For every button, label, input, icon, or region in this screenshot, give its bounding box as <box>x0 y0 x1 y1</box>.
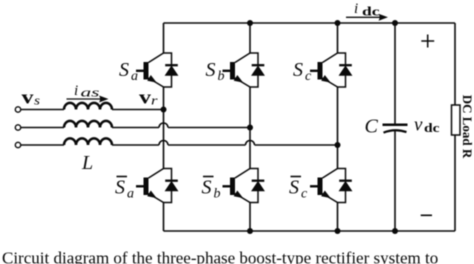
svg-text:S: S <box>202 177 212 199</box>
node dot phase b junction leg b <box>247 125 253 131</box>
current arrow i_as <box>67 96 109 103</box>
terminal phase b <box>15 125 20 130</box>
node dot top rail capacitor <box>392 20 398 26</box>
node dot top rail leg b <box>247 20 253 26</box>
svg-text:v: v <box>414 115 423 136</box>
svg-text:a: a <box>131 69 138 84</box>
svg-text:v: v <box>22 87 35 108</box>
svg-text:i: i <box>354 1 358 17</box>
label Sb-bar <box>202 177 221 202</box>
label i_dc <box>354 1 380 18</box>
node dot bottom rail leg b <box>247 228 253 234</box>
wire leg a vertical <box>163 23 165 231</box>
svg-text:c: c <box>305 69 312 84</box>
terminal phase a <box>15 107 20 112</box>
svg-text:S: S <box>119 59 129 81</box>
label Sb <box>206 59 225 84</box>
IGBT switch Sb (top, leg b) <box>223 53 265 87</box>
svg-text:S: S <box>293 59 303 81</box>
wire bottom DC rail <box>164 230 456 232</box>
label v_dc <box>414 115 440 136</box>
IGBT switch Sa (top, leg a) <box>136 53 178 87</box>
wire right DC bus (load bottom to rail) <box>454 135 456 231</box>
svg-text:v: v <box>139 87 152 108</box>
svg-text:DC Load R: DC Load R <box>460 95 474 159</box>
inductor L phase b <box>64 121 112 128</box>
label Sa <box>119 59 138 84</box>
svg-text:S: S <box>289 177 299 199</box>
svg-text:as: as <box>81 86 100 100</box>
svg-text:s: s <box>34 93 40 107</box>
IGBT switch Sa-bar (bottom, leg a) <box>136 169 178 203</box>
wire right DC bus (to load top) <box>454 23 456 105</box>
label i_as <box>74 83 100 100</box>
node dot bottom rail leg c <box>335 228 341 234</box>
svg-text:r: r <box>151 94 158 108</box>
svg-text:L: L <box>81 152 93 174</box>
svg-text:S: S <box>206 59 216 81</box>
wire phase c line with hops over legs a and b <box>21 141 338 146</box>
label Sc-bar <box>289 177 308 202</box>
resistor DC Load R <box>452 105 461 135</box>
plus terminal label <box>421 35 434 48</box>
label vs <box>22 87 41 108</box>
svg-text:C: C <box>365 115 379 137</box>
svg-text:dc: dc <box>424 121 440 135</box>
capacitor C plates <box>383 125 408 133</box>
node dot vr junction leg a <box>161 107 167 113</box>
IGBT switch Sc (top, leg c) <box>310 53 352 87</box>
minus terminal label <box>421 214 432 216</box>
svg-text:c: c <box>301 187 308 202</box>
wire phase a line <box>21 109 164 111</box>
wire leg c vertical <box>337 23 339 231</box>
node dot top rail leg c <box>335 20 341 26</box>
node dot phase c junction leg c <box>335 142 341 148</box>
node dot bottom rail capacitor <box>392 228 398 234</box>
label Sa-bar <box>115 177 134 202</box>
wire leg b vertical <box>249 23 251 231</box>
current arrow i_dc <box>346 14 388 21</box>
wire phase b line with hop over leg a <box>21 123 250 128</box>
svg-text:b: b <box>218 69 225 84</box>
svg-text:S: S <box>115 177 125 199</box>
wire capacitor branch <box>394 23 396 231</box>
IGBT switch Sb-bar (bottom, leg b) <box>223 169 265 203</box>
svg-text:i: i <box>74 83 78 99</box>
label vr <box>139 87 158 108</box>
terminal phase c <box>15 142 20 147</box>
IGBT switch Sc-bar (bottom, leg c) <box>310 169 352 203</box>
inductor L phase c <box>64 138 112 145</box>
svg-text:Circuit diagram of the three-p: Circuit diagram of the three-phase boost… <box>2 248 438 264</box>
inductor L phase a <box>64 103 112 110</box>
svg-text:dc: dc <box>362 4 380 18</box>
svg-text:b: b <box>214 187 221 202</box>
wire top DC rail <box>164 22 456 24</box>
label Sc <box>293 59 312 84</box>
svg-text:a: a <box>127 187 134 202</box>
